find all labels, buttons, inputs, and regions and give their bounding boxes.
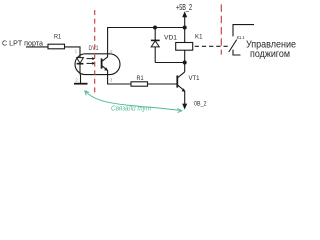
junction dot at +5V / coil top: [183, 26, 187, 30]
red boundary dashed line (left, through DV1): [94, 10, 96, 96]
wire: opto pin 3 to base resistor R1: [108, 75, 131, 85]
red boundary dashed line (right, through link): [220, 4, 222, 54]
svg-text:VT1: VT1: [189, 75, 200, 82]
junction dot at VD1 top: [153, 26, 157, 30]
diode VD1: [154, 28, 156, 41]
phototransistor of DV1: [101, 58, 103, 68]
teal annotation arrow (double headed): [85, 91, 182, 111]
wire: R1 to opto pin 1: [65, 47, 81, 54]
mechanical link from K1 coil to contact K1.1: [195, 45, 229, 47]
wire: opto pin 2 down: [80, 75, 82, 84]
wire: opto pin 4 up and top rail to +5V node: [108, 28, 185, 54]
svg-text:VD1: VD1: [164, 34, 177, 41]
wire: emitter down to 0V arrow: [184, 91, 186, 105]
wire: input stub under "порта" to R1: [26, 46, 48, 48]
svg-text:+5В_2: +5В_2: [176, 3, 192, 12]
optocoupler DV1 body: [75, 54, 120, 75]
svg-text:R1: R1: [54, 34, 61, 41]
power 0В_2 arrow: [182, 104, 187, 110]
svg-text:Связали тут: Связали тут: [111, 104, 151, 113]
svg-text:DV1: DV1: [89, 45, 99, 52]
relay contact K1.1: blade: [229, 40, 237, 53]
resistor R1 (bottom, base): [131, 82, 148, 86]
light arrow (lower): [87, 62, 94, 64]
transistor VT1: [184, 63, 186, 72]
svg-text:0В_2: 0В_2: [194, 101, 207, 108]
power +5В_2 arrow: [184, 15, 186, 28]
svg-text:K1: K1: [195, 35, 203, 41]
junction dot at coil bottom / collector: [183, 61, 187, 65]
svg-text:поджигом: поджигом: [250, 49, 290, 60]
light arrow (upper): [87, 58, 94, 60]
svg-text:К1.1: К1.1: [237, 35, 245, 40]
relay coil K1: [184, 28, 186, 43]
wire: VD1 bottom to coil bottom junction: [155, 62, 185, 64]
ground bar under opto pin 2: [74, 83, 88, 85]
svg-text:R1: R1: [137, 75, 144, 82]
LED of DV1: [79, 54, 81, 58]
relay contact K1.1: top lead: [233, 25, 254, 37]
resistor R1 (top, LPT series): [48, 44, 65, 49]
relay contact K1.1: bottom lead: [233, 50, 241, 55]
wire: R1 to VT1 base: [148, 83, 178, 85]
